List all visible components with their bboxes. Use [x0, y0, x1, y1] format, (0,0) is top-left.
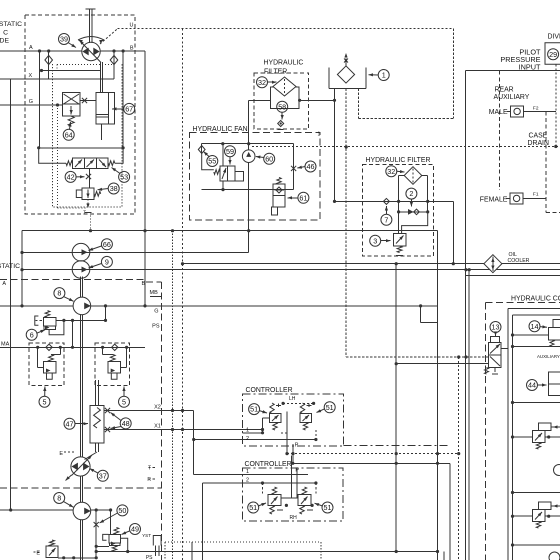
balloon 42: [65, 171, 76, 182]
directional control valve 42/53 feed wire: [39, 147, 123, 149]
balloon 58: [277, 101, 288, 112]
svg-text:49: 49: [131, 525, 139, 534]
svg-text:A: A: [29, 45, 33, 51]
svg-text:32: 32: [387, 167, 395, 176]
spring of shuttle valve: [68, 116, 74, 126]
wire: pump66 output bus L2 y252.5: [22, 252, 249, 254]
svg-text:51: 51: [324, 503, 332, 512]
wire: pilot riser to controllers: [193, 411, 195, 475]
svg-text:2: 2: [409, 189, 413, 198]
svg-text:E: E: [36, 551, 40, 557]
servo cylinder 67: [96, 93, 115, 124]
wire: drop to MA line: [72, 320, 74, 347]
svg-text:2: 2: [246, 436, 249, 442]
svg-text:STATIC: STATIC: [0, 21, 22, 28]
balloon 59: [225, 146, 236, 157]
balloon 48: [120, 418, 131, 429]
gear pump 8 upper: [73, 297, 91, 315]
svg-text:G: G: [29, 99, 33, 105]
svg-text:66: 66: [103, 240, 111, 249]
svg-text:CASE: CASE: [529, 133, 548, 140]
balloon 38: [108, 183, 119, 194]
tank breather filter: [337, 66, 354, 83]
wire: riser x202 down: [202, 483, 204, 560]
svg-text:46: 46: [307, 162, 315, 171]
svg-text:2: 2: [246, 477, 249, 483]
balloon 55: [207, 156, 218, 167]
svg-text:44: 44: [528, 381, 536, 390]
svg-text:48: 48: [122, 419, 130, 428]
balloon 5 right: [119, 396, 130, 407]
directional control valve 4/3: [73, 158, 109, 169]
controller RH right reducing valve 51: [302, 487, 306, 495]
hydrostatic motor 37: [71, 457, 90, 476]
wire: branch from charge line: [420, 306, 422, 323]
svg-text:R: R: [147, 477, 151, 483]
svg-text:YST: YST: [142, 533, 151, 538]
svg-text:HYDRAULIC FAN: HYDRAULIC FAN: [193, 126, 248, 133]
orifices 48: [105, 408, 110, 413]
orifice 50: [95, 510, 97, 558]
svg-text:53: 53: [120, 173, 128, 182]
wire: LH port 2: [194, 439, 316, 441]
valve block outer border: [507, 309, 509, 560]
gear pump 66: [72, 243, 90, 261]
svg-text:X1: X1: [154, 424, 161, 430]
svg-text:T: T: [148, 466, 151, 472]
wire: X1 pilot line: [104, 429, 263, 431]
drive shaft upper: [79, 277, 81, 298]
pilot dashed to diverter: [555, 64, 557, 146]
wire: block divider y492: [513, 492, 560, 494]
filter 2 element diamond: [404, 167, 422, 185]
svg-text:FILTER: FILTER: [264, 69, 287, 76]
svg-text:38: 38: [110, 184, 118, 193]
charge relief valve 38: [82, 188, 94, 199]
svg-text:64: 64: [65, 130, 73, 139]
svg-text:MALE: MALE: [489, 109, 508, 116]
fan anti-cavitation valve 61: [273, 184, 285, 195]
bypass check valve 2: [408, 209, 414, 215]
enclosure: inner pump dotted box: [53, 64, 123, 207]
orifice X below valve: [88, 169, 90, 189]
svg-text:AUXILIARY: AUXILIARY: [537, 354, 560, 359]
balloon 47: [64, 418, 75, 429]
balloon 14: [529, 321, 540, 332]
svg-text:50: 50: [118, 506, 126, 515]
svg-text:B: B: [130, 46, 134, 52]
balloon 51 RH-left: [248, 502, 259, 513]
balloon 6: [26, 329, 37, 340]
wire: bottom bus y551: [96, 551, 439, 553]
boundary: gear pump section edge: [160, 282, 162, 560]
balloon 51 LH-left: [249, 404, 260, 415]
wire: LH P/T down: [286, 412, 288, 454]
drive shaft lower: [79, 476, 81, 502]
relief assembly 5 right box: [95, 343, 130, 385]
svg-text:T: T: [83, 210, 86, 215]
svg-text:67: 67: [125, 105, 133, 114]
wire: pump9 output bus L4 y269.7: [22, 269, 560, 271]
main solid vertical right of cooler: [468, 270, 470, 560]
enclosure: hydraulic filter dashed box upper: [254, 73, 309, 129]
svg-text:51: 51: [326, 403, 334, 412]
balloon 49: [130, 524, 141, 535]
wire: filter 2 outlet to cooler: [453, 201, 455, 263]
wire: return line into filter 2: [334, 100, 336, 201]
hydrostatic variable pump 39: [82, 42, 100, 60]
svg-text:COOLER: COOLER: [508, 258, 530, 264]
svg-text:3: 3: [373, 236, 377, 245]
svg-text:CONTROLLER: CONTROLLER: [246, 387, 293, 394]
balloon 1: [378, 70, 389, 81]
balloon 66: [101, 239, 112, 250]
reservoir tank 1: [328, 68, 330, 89]
balloon 51 LH-right: [324, 402, 335, 413]
case drain dotted collector low: [287, 453, 459, 455]
boundary: hydrostatic pump section separator: [0, 278, 146, 280]
balloon 61: [298, 192, 309, 203]
svg-text:DIVERTER: DIVERTER: [548, 34, 560, 41]
svg-text:F2: F2: [533, 106, 539, 112]
wire: case-drain collector bus L3 y263.7: [183, 263, 560, 265]
wire: left return riser x22: [21, 231, 23, 306]
enclosure: controller RH dashed box: [243, 468, 344, 521]
svg-text:1: 1: [246, 427, 249, 433]
svg-text:CONTROLLER: CONTROLLER: [245, 461, 292, 468]
wire: RH port 2: [203, 482, 316, 484]
svg-text:HYDRAULIC: HYDRAULIC: [264, 60, 304, 67]
fan circuit left branch with check valve: [201, 144, 203, 153]
wire: charge pressure line P y304.5: [0, 305, 73, 307]
flushing valve 47: [95, 380, 97, 406]
wire: riser to directional valve left: [39, 51, 41, 148]
svg-text:60: 60: [265, 154, 273, 163]
svg-text:MA: MA: [1, 341, 10, 347]
filter 1 body: [271, 87, 300, 109]
svg-text:6: 6: [30, 330, 34, 339]
wire: port X line: [0, 78, 114, 80]
filter 1 element diamond: [273, 77, 296, 96]
balloon 46: [305, 161, 316, 172]
svg-text:1: 1: [318, 132, 321, 138]
pilot dotted line U across top: [118, 28, 454, 30]
wire: solid line y363 to valve 13: [396, 363, 489, 365]
pilot dotted vertical x172: [172, 231, 174, 560]
wire: filter outlet to tank: [299, 99, 335, 101]
wire: bottom drain line: [58, 557, 96, 559]
svg-text:B: B: [142, 281, 146, 287]
female quick coupler: [506, 197, 510, 199]
gear pump 9: [72, 261, 90, 279]
case drain dashed F1 path: [545, 111, 547, 212]
svg-text:39: 39: [60, 35, 68, 44]
svg-text:51: 51: [249, 503, 257, 512]
wire: right block rail y275.5: [466, 275, 560, 277]
wire: riser to directional valve right: [122, 51, 124, 148]
balloon 8 lower: [54, 493, 65, 504]
pilot dashed from G junction: [57, 105, 59, 208]
wire: block divider y346: [513, 346, 560, 348]
svg-text:X2: X2: [154, 405, 161, 411]
wire: suction bus L1 y230.7: [22, 230, 438, 232]
tank drain dotted to case line: [345, 89, 347, 357]
svg-text:37: 37: [99, 471, 107, 480]
check valve left on A line: [48, 51, 50, 79]
balloon 8 upper: [54, 288, 65, 299]
tank return dotted U-path: [358, 89, 360, 119]
svg-text:E: E: [59, 451, 63, 457]
pilot dotted bottom loop: [165, 541, 321, 543]
svg-text:51: 51: [250, 405, 258, 414]
enclosure: hydraulic filter dashed box mid: [363, 165, 434, 256]
orifice to servo: [80, 100, 96, 102]
svg-text:8: 8: [57, 494, 61, 503]
pilot pressure input wire: [466, 70, 560, 72]
wire: MA line: [0, 346, 145, 348]
wire: vertical supply riser x396: [395, 264, 397, 552]
servo feedback dashed wire: [57, 64, 114, 66]
svg-text:FEMALE: FEMALE: [480, 197, 508, 204]
balloon 32 upper: [257, 77, 268, 88]
orifice 7 on return line: [383, 198, 389, 204]
filter bypass check: [278, 121, 284, 127]
balloon 9: [101, 256, 112, 267]
svg-text:X: X: [29, 73, 33, 79]
filter 2 bypass line: [399, 211, 428, 213]
unloader valve 49: [110, 510, 112, 534]
svg-text:1: 1: [246, 469, 249, 475]
svg-text:5: 5: [122, 397, 126, 406]
wire: controller supply line: [293, 462, 450, 464]
svg-text:7: 7: [384, 215, 388, 224]
balloon 32 mid: [386, 166, 397, 177]
wire: RH port 1: [194, 474, 308, 476]
balloon 53: [119, 171, 130, 182]
auxiliary valve 44: [549, 372, 560, 384]
male quick coupler: [507, 110, 511, 112]
balloon 29: [548, 49, 559, 60]
svg-text:14: 14: [531, 322, 539, 331]
svg-text:PS: PS: [152, 324, 160, 330]
fan motor 60: [242, 150, 255, 163]
balloon 39: [59, 34, 70, 45]
balloon 5 left: [39, 396, 50, 407]
balloon 44: [527, 380, 538, 391]
pilot dashed vertical x499: [498, 71, 500, 190]
wire: left vertical feedback line: [10, 79, 12, 510]
svg-text:HYDRAULIC FILTER: HYDRAULIC FILTER: [366, 157, 431, 164]
auxiliary relief valve 14: [549, 328, 560, 341]
wire: short riser x192: [191, 542, 193, 560]
check valve right on B line: [113, 51, 115, 79]
svg-text:42: 42: [67, 173, 75, 182]
enclosure: hydraulic fan dashed box: [190, 133, 321, 220]
relief assembly 5 left box: [29, 343, 64, 385]
svg-text:A: A: [2, 281, 6, 287]
filter 2 body wires: [398, 176, 400, 234]
balloon 3: [370, 235, 381, 246]
svg-text:47: 47: [66, 419, 74, 428]
controller LH left reducing valve 51: [270, 403, 274, 414]
balloon 7: [381, 214, 392, 225]
svg-text:13: 13: [492, 323, 500, 332]
relief valve 3: [393, 234, 406, 247]
balloon 2: [406, 188, 417, 199]
wire: dotted case line to valve 13: [346, 356, 489, 358]
orifice 46 on fan rail: [293, 144, 295, 190]
svg-text:9: 9: [105, 258, 109, 267]
pilot line U from pump control: [100, 29, 118, 44]
svg-text:5: 5: [43, 397, 47, 406]
svg-text:G: G: [154, 309, 158, 315]
fan motor case drain dotted: [252, 146, 560, 148]
gear pump 8 lower: [73, 502, 91, 520]
wire: port G line: [0, 104, 62, 106]
enclosure: hydrostatic transmission dashed box: [25, 15, 135, 214]
svg-text:8: 8: [57, 289, 61, 298]
wire: X2 pilot line: [104, 410, 194, 412]
svg-text:P: P: [295, 468, 299, 474]
compensator valve block rung 2: [513, 515, 533, 517]
boundary: lower section separator: [0, 487, 161, 489]
wire: block divider y545: [513, 544, 560, 546]
fan relief valve 59: [222, 144, 224, 166]
wire: port A line: [0, 50, 82, 52]
wire: pump 8 lower output: [0, 509, 73, 511]
pump drive shaft: [88, 9, 90, 43]
pressure control valve 6: [43, 317, 56, 326]
controller LH right reducing valve 51: [300, 403, 304, 414]
svg-text:P: P: [295, 443, 299, 449]
shuttle valve 64: [62, 93, 80, 117]
svg-text:U: U: [130, 23, 134, 29]
svg-text:LH: LH: [289, 396, 296, 402]
svg-text:32: 32: [258, 78, 266, 87]
tank suction drain solid: [334, 89, 336, 101]
svg-text:DE: DE: [0, 38, 9, 45]
drain dashed to suction bus: [90, 216, 92, 231]
svg-text:61: 61: [299, 193, 307, 202]
svg-text:1: 1: [382, 71, 386, 80]
balloon partial right edge: [554, 465, 560, 476]
wire: valve 6 output: [56, 319, 106, 321]
svg-text:29: 29: [549, 50, 557, 59]
servo feedback wire: [42, 70, 102, 72]
compensator valve block rung 1: [513, 436, 533, 438]
svg-text:55: 55: [208, 157, 216, 166]
balloon 64: [63, 129, 74, 140]
wire: port B line to right riser: [100, 50, 145, 52]
E pressure valve bottom left: [46, 546, 58, 558]
svg-text:58: 58: [278, 102, 286, 111]
wire: filter inlet: [249, 99, 270, 101]
dash link controllers to valve block: [344, 445, 450, 447]
fan circuit rail top: [202, 143, 294, 145]
enclosure: controller LH dashed box: [243, 394, 344, 446]
pilot dogleg to relief 3: [402, 212, 428, 234]
drain to tank T: [87, 199, 89, 208]
valve block inner border: [512, 315, 514, 560]
balloon 37: [97, 470, 108, 481]
balloon 67: [124, 103, 135, 114]
valve springs: [66, 161, 73, 166]
svg-text:MB: MB: [150, 290, 159, 296]
svg-text:PS: PS: [146, 555, 153, 560]
svg-text:RH: RH: [290, 515, 298, 521]
enclosure: hydraulic control valve dashed box: [485, 303, 487, 560]
svg-text:AUXILIARY: AUXILIARY: [494, 94, 530, 101]
controller RH left reducing valve 51: [272, 487, 276, 495]
diverter valve box: [545, 43, 560, 65]
svg-text:59: 59: [226, 147, 234, 156]
svg-text:INPUT: INPUT: [519, 63, 541, 72]
svg-text:C: C: [3, 30, 8, 37]
svg-text:F1: F1: [533, 192, 539, 198]
wire: LH port 1: [243, 432, 263, 434]
pilot dashed branch down: [182, 29, 184, 560]
wire: block rung y402: [513, 402, 560, 404]
balloon 51 RH-right: [322, 502, 333, 513]
solenoid diverter valve 13: [491, 337, 500, 343]
fan circuit rail bottom: [202, 189, 294, 191]
svg-text:HYDRAULIC CONTROL VALVE: HYDRAULIC CONTROL VALVE: [511, 296, 560, 303]
oil cooler: [484, 255, 502, 273]
balloon 60: [264, 153, 275, 164]
wire: controller pilot lines X1/X2 junction: [283, 402, 314, 404]
balloon 50: [117, 505, 128, 516]
wire: vertical riser x437 from L1: [437, 231, 439, 552]
wire: RH P/T verticals: [291, 456, 293, 498]
balloon partial bottom right: [549, 552, 560, 560]
svg-text:REAR: REAR: [495, 87, 514, 94]
pump rotation arrows: [78, 37, 104, 41]
svg-text:STATIC: STATIC: [0, 263, 20, 270]
balloon 13: [490, 322, 501, 333]
